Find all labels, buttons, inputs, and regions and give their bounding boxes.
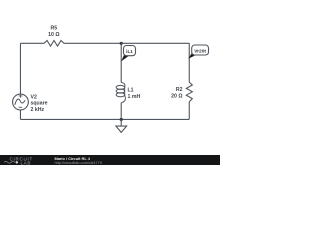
resistor R5 [44,41,64,47]
inductor L1 [116,83,125,103]
svg-text:R2: R2 [176,87,183,93]
footer bar [0,155,220,165]
wire top left segment [20,42,44,44]
svg-text:10 Ω: 10 Ω [48,32,59,38]
svg-text:20 Ω: 20 Ω [171,94,182,100]
svg-text:LAB: LAB [21,160,31,165]
svg-text:1 mH: 1 mH [128,94,141,100]
wire bottom [20,118,189,120]
svg-text:V2: V2 [31,94,37,100]
voltage source V2 [13,94,29,110]
wire left vertical [19,43,21,119]
svg-text:http://circuitlab.com/c64779: http://circuitlab.com/c64779 [55,160,102,165]
resistor R2 [186,82,192,102]
svg-text:L1: L1 [128,88,134,94]
flag iL1 [121,46,135,62]
wire middle vertical [120,43,122,119]
node junction bottom [120,118,123,121]
ground [116,119,127,132]
svg-text:Vr20t: Vr20t [194,48,206,54]
wire top right segment [64,42,189,44]
svg-text:iL1: iL1 [126,49,133,54]
svg-text:2 kHz: 2 kHz [31,107,45,113]
svg-text:square: square [31,101,48,107]
wire right vertical [188,43,190,119]
svg-text:R5: R5 [50,26,57,32]
node junction top [120,42,123,45]
flag Vr20t [188,45,208,59]
